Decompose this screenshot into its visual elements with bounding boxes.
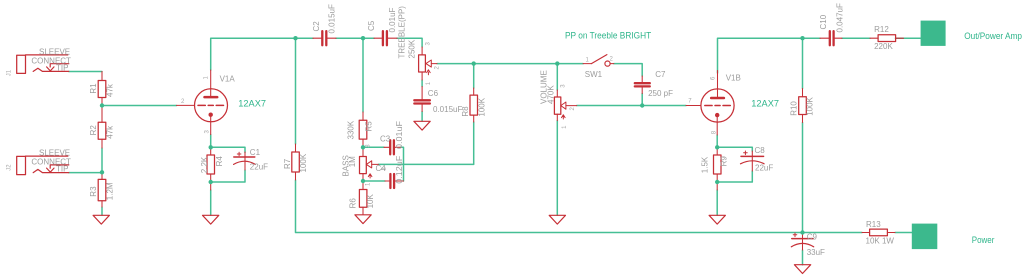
wire J2 tip to rail: [69, 172, 102, 174]
wire volume wiper to V1B grid: [577, 105, 686, 107]
wire net V1A grid: R1/R2 junction to V1A pin 2: [102, 105, 177, 107]
svg-text:R13: R13: [866, 220, 881, 229]
wire C9 branch to ground: [802, 250, 804, 265]
svg-text:C9: C9: [807, 232, 818, 241]
svg-text:SW1: SW1: [585, 70, 603, 79]
svg-text:22uF: 22uF: [755, 164, 773, 173]
wire V1B plate to top rail and C10: [718, 38, 821, 73]
wire R9 bottom to ground: [716, 190, 718, 215]
svg-text:2.2K: 2.2K: [200, 156, 209, 173]
svg-text:R7: R7: [283, 158, 292, 169]
svg-text:V1A: V1A: [220, 74, 236, 83]
junction node R7 top: [293, 36, 297, 40]
svg-text:12AX7: 12AX7: [751, 98, 779, 108]
wire bass wiper to R8 bottom: [378, 122, 473, 164]
ground below R4: [203, 215, 219, 224]
junction node power bus / C9: [800, 230, 804, 234]
svg-text:12AX7: 12AX7: [238, 98, 266, 108]
svg-text:R9: R9: [720, 156, 729, 167]
svg-text:R12: R12: [874, 25, 889, 34]
resistor R13 10K 1W: [862, 220, 895, 246]
svg-text:1.2M: 1.2M: [105, 182, 114, 200]
wire C7 bottom to volume wiper net: [641, 94, 643, 106]
svg-text:47k: 47k: [105, 125, 114, 139]
potentiometer TREEBLE(PP) 250K: [398, 6, 441, 86]
wire V1A cathode to R4 C1 node: [210, 135, 212, 148]
svg-text:C10: C10: [819, 14, 828, 29]
junction node R4 bottom: [209, 180, 213, 184]
svg-text:0.015uF: 0.015uF: [327, 4, 336, 33]
wire R12 right to Out pad: [896, 37, 921, 39]
svg-text:R6: R6: [348, 198, 357, 209]
svg-text:R8: R8: [461, 106, 470, 117]
svg-text:250 pF: 250 pF: [648, 89, 673, 98]
svg-text:10K 1W: 10K 1W: [866, 236, 895, 245]
wire V1A plate to tone stack top rail: [211, 38, 422, 70]
op-amp tube V1B 12AX7 triode B: [686, 71, 779, 136]
resistor R3 1.2M: [89, 172, 114, 207]
svg-text:250K: 250K: [407, 39, 416, 58]
svg-text:C4: C4: [376, 164, 387, 173]
junction node R9 bottom: [715, 180, 719, 184]
pad Power: [912, 224, 938, 250]
svg-text:33uF: 33uF: [807, 248, 825, 257]
junction node R8 top: [472, 61, 476, 65]
capacitor C3 0.01uF: [380, 121, 404, 154]
switch SW1: [583, 55, 614, 80]
resistor R2 47k: [89, 106, 114, 148]
junction node R2/R3/J2 tip: [100, 170, 104, 174]
capacitor C1 22uF polarized: [234, 148, 269, 172]
resistor R9 1.5K: [700, 147, 728, 190]
capacitor C5 0.01uF: [367, 7, 397, 45]
svg-text:1M: 1M: [348, 156, 357, 167]
resistor R8 100K: [461, 88, 487, 122]
wire node C3 left: [363, 146, 384, 148]
svg-text:100K: 100K: [299, 153, 308, 172]
capacitor C2 0.015uF: [312, 4, 337, 45]
svg-text:V1B: V1B: [726, 74, 741, 83]
op-amp tube V1A 12AX7 triode A: [177, 70, 267, 135]
svg-text:TREEBLE(PP): TREEBLE(PP): [398, 6, 407, 59]
svg-text:C2: C2: [312, 21, 321, 32]
svg-text:0.01uF: 0.01uF: [388, 7, 397, 32]
resistor R5 330K: [347, 112, 374, 147]
resistor R10 100K: [790, 89, 815, 123]
ground below R3: [93, 215, 109, 224]
wire J1 tip to R1 top: [69, 71, 102, 73]
wire treble bottom to C6: [421, 80, 423, 87]
junction node bass bottom: [361, 179, 365, 183]
wire C10 right to R12: [842, 37, 870, 39]
ground below R6: [355, 215, 371, 224]
junction node C7 bottom: [640, 103, 644, 107]
resistor R12 220K: [870, 25, 904, 51]
svg-text:47k: 47k: [105, 83, 114, 97]
wire R7 bottom to ground bus: [296, 180, 863, 233]
svg-text:C7: C7: [655, 70, 666, 79]
svg-text:C1: C1: [250, 148, 261, 157]
wire R3 bottom to ground: [101, 207, 103, 215]
svg-text:R10: R10: [790, 101, 799, 116]
svg-text:C6: C6: [428, 89, 439, 98]
svg-text:TIP: TIP: [56, 165, 68, 174]
svg-text:0.015uF: 0.015uF: [433, 105, 462, 114]
resistor R4 2.2K: [200, 147, 224, 190]
svg-text:SLEEVE: SLEEVE: [39, 149, 70, 158]
svg-text:0.12uF: 0.12uF: [395, 156, 404, 184]
wire volume top branch: [556, 64, 558, 90]
wire left rail R1-R2-R3: [101, 148, 103, 172]
ground below C9: [794, 265, 810, 274]
svg-text:C8: C8: [755, 146, 766, 155]
wire R4 bottom to ground: [210, 190, 212, 215]
svg-text:100K: 100K: [806, 96, 815, 115]
svg-text:J2: J2: [7, 164, 13, 171]
svg-text:J1: J1: [7, 69, 13, 76]
wire R5 branch: [362, 38, 364, 112]
svg-text:100K: 100K: [477, 97, 486, 116]
svg-text:Power: Power: [972, 235, 995, 245]
svg-text:C5: C5: [367, 20, 376, 31]
svg-text:22uF: 22uF: [250, 163, 268, 172]
resistor R1 47k: [89, 72, 114, 106]
svg-text:TIP: TIP: [56, 63, 68, 72]
wire R7 branch top: [295, 38, 297, 144]
svg-text:0.01uF: 0.01uF: [395, 121, 404, 149]
svg-text:R3: R3: [89, 186, 98, 197]
capacitor C8 22uF polarized: [741, 146, 774, 173]
capacitor C9 33uF polarized: [791, 232, 825, 257]
capacitor C10 0.047uF: [819, 3, 845, 45]
wire treble wiper to SW1 and volume top: [437, 63, 583, 65]
capacitor C7 250 pF: [635, 70, 673, 98]
ground below volume pot: [549, 215, 565, 224]
wire C3 right to C4 right vertical: [400, 147, 403, 181]
wire SW1 pin2 to C7 top: [614, 64, 642, 76]
svg-text:470K: 470K: [546, 85, 555, 104]
junction node R1/R2/grid: [100, 103, 104, 107]
wire C4 left to bass pot bottom node: [363, 180, 385, 182]
svg-text:1.5K: 1.5K: [700, 156, 709, 173]
wire V1B cathode node: [716, 135, 718, 147]
svg-text:0.047uF: 0.047uF: [836, 3, 845, 32]
wire C1 loop: [211, 147, 245, 182]
wire R10 bottom to power bus: [802, 123, 804, 233]
capacitor C4 0.12uF: [376, 156, 404, 188]
ground below C6: [414, 121, 430, 130]
potentiometer BASS 1M: [341, 144, 387, 186]
wire R8 top to treble wiper net: [473, 64, 475, 88]
potentiometer VOLUME 470K: [540, 70, 577, 129]
wire volume bottom to ground: [556, 121, 558, 216]
connector J1: [17, 55, 69, 74]
connector J2: [17, 156, 69, 174]
wire C6 bottom to ground: [421, 112, 423, 122]
resistor R6 10K: [348, 181, 375, 215]
wire R10 branch: [802, 38, 804, 88]
junction node V1A cathode: [209, 145, 213, 149]
svg-text:330K: 330K: [347, 120, 356, 139]
svg-text:C3: C3: [380, 135, 391, 144]
junction node plate rail / R10: [800, 36, 804, 40]
junction node C2/C5/R5: [361, 36, 365, 40]
svg-text:R4: R4: [215, 156, 224, 167]
junction node bass top: [361, 145, 365, 149]
wire C8 loop: [717, 147, 752, 182]
svg-text:220K: 220K: [874, 42, 893, 51]
svg-text:PP on Treeble BRIGHT: PP on Treeble BRIGHT: [565, 31, 652, 41]
pad Out/Power Amp: [921, 21, 946, 46]
junction node volume top: [555, 61, 559, 65]
svg-text:R2: R2: [89, 125, 98, 136]
svg-text:Out/Power Amp: Out/Power Amp: [964, 31, 1022, 41]
svg-text:SLEEVE: SLEEVE: [39, 47, 70, 56]
wire R13 right to Power pad: [895, 232, 912, 234]
ground below R9: [709, 215, 725, 224]
junction node V1B cathode: [715, 145, 719, 149]
resistor R7 100K: [283, 144, 308, 180]
svg-text:R5: R5: [364, 121, 373, 132]
svg-text:R1: R1: [89, 83, 98, 94]
svg-text:10K: 10K: [366, 194, 375, 209]
capacitor C6 0.015uF: [414, 87, 462, 114]
